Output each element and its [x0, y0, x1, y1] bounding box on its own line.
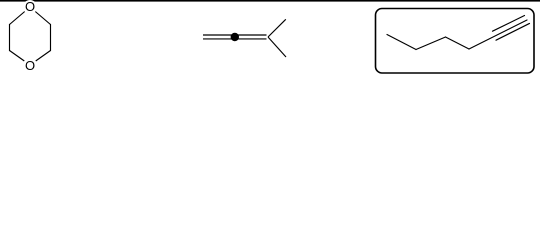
double bond upper line C1=C2=C3 [203, 34, 267, 36]
central allene carbon dot C2 [231, 33, 239, 41]
top rule line [0, 0, 540, 2]
triple bond upper parallel [493, 16, 525, 32]
bond C5-C4 [416, 37, 446, 50]
svg-text:O: O [25, 0, 35, 14]
molecule 3: hex-1-yne chain [387, 16, 530, 50]
bond C6-C5 [387, 35, 416, 50]
bond C3-CH3 up [268, 19, 286, 37]
bond C3-CH3 down [268, 37, 286, 57]
bond C3-O4 [10, 51, 31, 66]
bond C2-C3 [9, 25, 11, 51]
double bond lower line C1=C2=C3 [203, 38, 267, 40]
label mask O1 [23, 0, 37, 14]
molecule 1: 1,4-dioxane ring [10, 7, 51, 65]
bond O1-C6 [30, 7, 51, 25]
bond C4-C3 [446, 37, 470, 49]
rounded highlight box [376, 9, 535, 74]
bond C5-O4 [30, 51, 51, 66]
svg-text:O: O [25, 58, 35, 73]
label mask O4 [23, 58, 37, 72]
bond O1-C2 [10, 7, 31, 25]
bond C6-C5 [50, 25, 52, 51]
molecule 2: 3-methyl-1,2-butadiene (allene) [203, 19, 286, 57]
bond C3-C2-C1 axis line [469, 20, 527, 49]
triple bond lower parallel [496, 23, 530, 40]
